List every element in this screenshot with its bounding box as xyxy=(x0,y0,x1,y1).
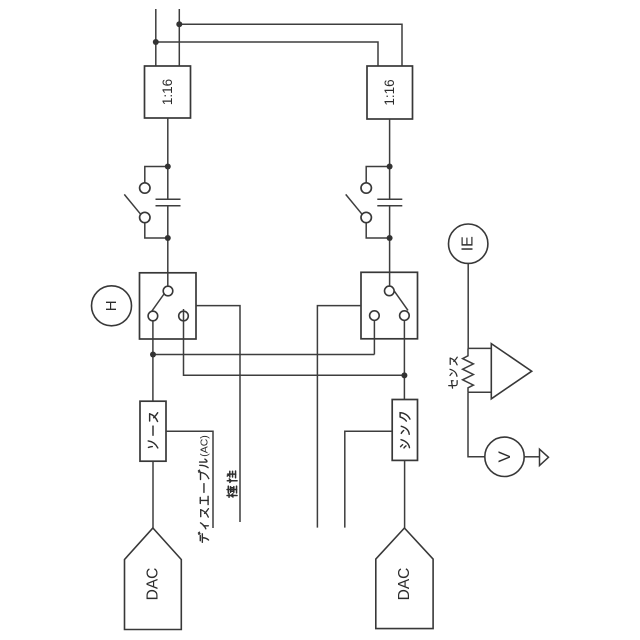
wire T2 output xyxy=(389,119,391,199)
relay K2 common contact xyxy=(385,286,395,296)
block sink xyxy=(392,400,417,461)
node H xyxy=(92,286,132,326)
svg-text:V: V xyxy=(495,450,514,462)
wire cap C1 to relay xyxy=(167,206,169,273)
junction bus lower xyxy=(401,372,407,378)
relay K2 contact right xyxy=(400,311,410,321)
svg-text:IE: IE xyxy=(460,236,477,251)
block DAC2 xyxy=(376,528,433,629)
wire sink disable xyxy=(345,431,392,527)
relay K2 contact left xyxy=(370,311,380,321)
junction dot B xyxy=(176,21,182,27)
wire source to DAC1 xyxy=(152,461,154,528)
node V meter xyxy=(485,437,524,476)
wire IE to sense xyxy=(467,263,469,348)
switch S1 arm xyxy=(124,194,140,214)
wire input B xyxy=(178,9,180,66)
relay K1 contact left xyxy=(148,311,158,321)
wire K2 control xyxy=(317,306,361,528)
relay K2 box xyxy=(361,272,418,339)
wire K2 common in xyxy=(389,272,391,286)
wire sense top to amp xyxy=(468,347,491,349)
junction node C1 bottom xyxy=(165,235,171,241)
label source (katakana) xyxy=(148,413,158,448)
switch S1 terminal upper xyxy=(140,183,150,193)
relay K2 arm xyxy=(394,291,408,311)
svg-text:(AC): (AC) xyxy=(198,435,210,457)
svg-text:1:16: 1:16 xyxy=(160,79,175,105)
wire K1 NC contact down xyxy=(152,321,154,401)
wire switch S1 bottom branch xyxy=(145,223,168,238)
junction node C1 top xyxy=(165,164,171,170)
switch S2 terminal lower xyxy=(361,212,371,222)
switch S2 arm xyxy=(346,194,362,214)
wire cap C2 to relay xyxy=(389,206,391,272)
wire K1 polarity control xyxy=(196,306,240,522)
svg-text:1:16: 1:16 xyxy=(382,79,397,105)
svg-text:DAC: DAC xyxy=(396,568,413,601)
wire sense bottom to amp xyxy=(468,391,491,393)
capacitor C2 xyxy=(377,199,402,206)
resistor sense xyxy=(463,348,474,392)
relay K1 contact right xyxy=(179,311,189,321)
wire switch S2 top branch xyxy=(366,167,389,183)
wire K2 right contact down xyxy=(403,320,405,399)
label sense (katakana) xyxy=(449,357,458,388)
wire sense to V meter xyxy=(468,392,485,457)
switch S2 terminal upper xyxy=(361,183,371,193)
wire K1 common in xyxy=(167,273,169,286)
relay K1 arm xyxy=(152,294,165,312)
wire K2 left contact to bus xyxy=(373,320,375,354)
junction node C2 top xyxy=(387,164,393,170)
connector output arrow xyxy=(540,449,549,465)
wire switch S2 bottom branch xyxy=(366,223,389,238)
wire T1 output xyxy=(167,118,169,199)
transformer T2 1:16 xyxy=(367,66,413,119)
block source xyxy=(140,401,166,461)
node IE xyxy=(449,224,488,263)
wire V meter output xyxy=(524,456,539,458)
relay K1 common contact xyxy=(163,286,173,296)
label sink (katakana) xyxy=(400,413,410,448)
wire crossover upper xyxy=(179,24,402,66)
wire crossover lower xyxy=(156,42,378,66)
switch S1 terminal lower xyxy=(140,212,150,222)
wire switch S1 top branch xyxy=(145,167,168,183)
wire input A xyxy=(155,9,157,66)
junction bus upper xyxy=(150,352,156,358)
wire sink to DAC2 xyxy=(404,460,406,528)
transformer T1 1:16 xyxy=(145,66,191,118)
wire K1 NO contact down xyxy=(184,309,405,375)
label disable (katakana) xyxy=(198,459,208,542)
label polarity (kanji) xyxy=(227,471,237,497)
relay K1 box xyxy=(140,273,197,339)
wire bus upper xyxy=(153,354,374,356)
wire source disable xyxy=(166,431,213,528)
junction node C2 bottom xyxy=(387,235,393,241)
svg-text:H: H xyxy=(103,300,120,311)
svg-text:DAC: DAC xyxy=(145,568,162,601)
op-amp buffer xyxy=(491,344,531,399)
block DAC1 xyxy=(125,528,182,630)
capacitor C1 xyxy=(156,199,181,206)
junction dot A xyxy=(153,39,159,45)
